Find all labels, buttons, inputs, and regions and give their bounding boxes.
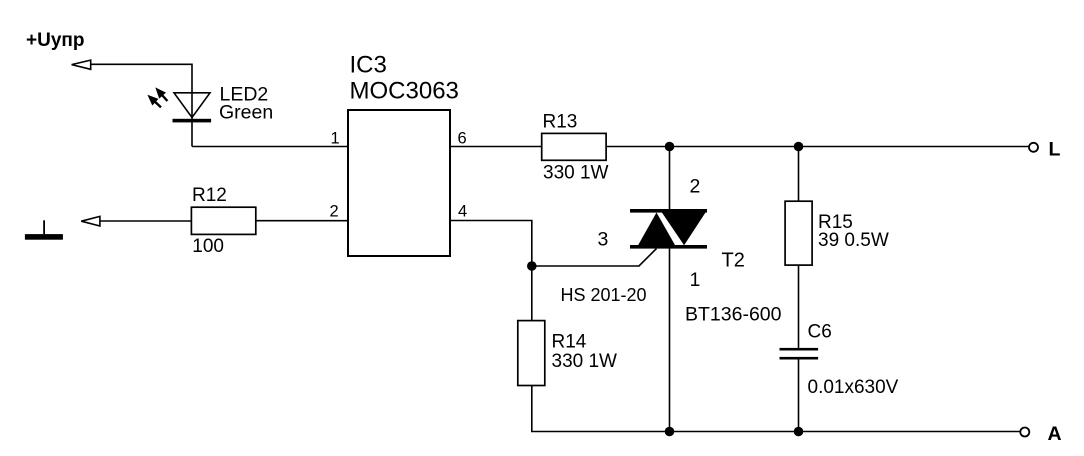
svg-text:R14: R14 (552, 332, 587, 353)
node control-return arrow (81, 216, 100, 226)
svg-text:0.01x630V: 0.01x630V (808, 377, 899, 398)
node junction dot top bus / R15 (794, 142, 804, 152)
wire R13 to terminal L (top bus) (606, 146, 1029, 148)
resistor R15 (785, 201, 812, 265)
wire R14 bottom to bottom bus to terminal A (532, 386, 1021, 432)
svg-text:MOC3063: MOC3063 (350, 78, 459, 105)
svg-text:330 1W: 330 1W (552, 351, 618, 372)
node junction dot bottom bus / triac (665, 427, 675, 437)
node junction dot gate / R14 (527, 261, 537, 271)
svg-text:1: 1 (331, 130, 340, 148)
svg-text:1: 1 (690, 269, 701, 291)
op-amp U1: optocoupler IC3 box (348, 110, 450, 256)
LED LED2 (147, 87, 211, 122)
wire top bus down to R15 (798, 147, 800, 202)
svg-text:Green: Green (219, 102, 273, 124)
node terminal L circle (1029, 143, 1038, 152)
svg-text:R13: R13 (543, 112, 578, 133)
capacitor C6 (780, 348, 819, 360)
svg-text:BT136-600: BT136-600 (685, 304, 782, 326)
wire IC pin 6 to R13 (450, 146, 542, 148)
node terminal A circle (1020, 428, 1029, 437)
resistor R12 (191, 207, 255, 234)
svg-text:C6: C6 (808, 322, 832, 343)
resistor R14 (518, 321, 545, 386)
svg-text:A: A (1048, 423, 1062, 445)
svg-text:39 0.5W: 39 0.5W (818, 230, 889, 251)
svg-text:HS 201-20: HS 201-20 (561, 285, 647, 305)
svg-text:100: 100 (192, 236, 224, 257)
svg-text:2: 2 (330, 202, 339, 220)
wire +Uupr arrow to LED top (91, 64, 192, 146)
svg-text:+Uупр: +Uупр (26, 30, 84, 51)
wire top bus to triac pin 2 (669, 147, 671, 210)
transistor Q1: triac T2 (630, 209, 707, 249)
wire gate node to triac gate (532, 249, 657, 267)
svg-text:4: 4 (458, 202, 467, 220)
wire IC pin 4 down to gate node (450, 221, 532, 321)
node junction dot bottom bus / C6 (794, 427, 804, 437)
node junction dot top bus / triac (665, 142, 675, 152)
svg-text:6: 6 (458, 130, 467, 148)
svg-text:L: L (1049, 139, 1061, 161)
node +Uupr arrow (72, 60, 91, 69)
wire arrow to R12 (100, 220, 191, 222)
wire triac pin 1 to bottom bus (669, 248, 671, 432)
svg-text:2: 2 (690, 176, 701, 198)
wire C6 bottom plate to bottom bus (798, 359, 800, 431)
svg-text:3: 3 (598, 229, 609, 251)
wire LED bottom to IC pin 1 (192, 146, 348, 148)
svg-text:330 1W: 330 1W (543, 163, 609, 184)
wire R15 to C6 top plate (798, 265, 800, 348)
ground (25, 220, 63, 239)
svg-text:R12: R12 (192, 185, 227, 206)
svg-text:IC3: IC3 (350, 52, 387, 79)
wire R12 to IC pin 2 (256, 220, 348, 222)
svg-text:T2: T2 (722, 250, 745, 272)
resistor R13 (542, 133, 606, 160)
